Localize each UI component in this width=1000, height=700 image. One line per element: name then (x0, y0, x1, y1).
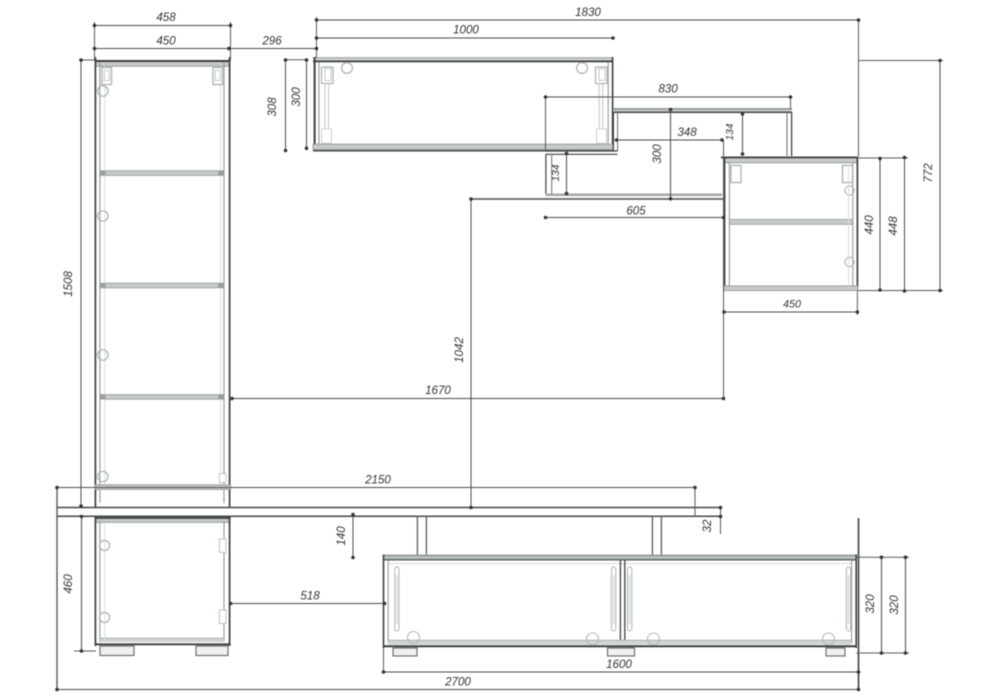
svg-text:518: 518 (300, 590, 320, 603)
svg-text:1670: 1670 (425, 384, 451, 397)
dimension 450 right (722, 299, 859, 314)
svg-text:1042: 1042 (453, 337, 466, 363)
svg-text:2700: 2700 (444, 676, 471, 689)
tall left display cabinet (95, 57, 231, 508)
dimension 1830 (315, 6, 861, 22)
extension 605 right / 1670 (723, 140, 725, 399)
svg-text:605: 605 (626, 205, 646, 218)
dimension 440 (863, 157, 882, 292)
extension 2150 right (694, 488, 696, 518)
svg-text:830: 830 (658, 83, 678, 96)
dimension 1000 (315, 24, 615, 40)
svg-text:772: 772 (922, 163, 935, 183)
dimension 605 (544, 205, 726, 220)
svg-text:460: 460 (62, 574, 75, 594)
right extension line bottom (858, 518, 860, 690)
dimension 32 (701, 506, 722, 533)
extension 296/458 (230, 22, 232, 60)
dimension 300 left (290, 58, 308, 150)
svg-text:300: 300 (290, 87, 303, 107)
extension 440/448/772 bottom tick (859, 290, 944, 292)
middle bottom shelf line (546, 194, 723, 197)
lower left cabinet 460 (95, 517, 231, 646)
shelf board 830 (613, 109, 792, 113)
extension 1600 left (383, 648, 385, 672)
dimension 296 (227, 35, 318, 51)
svg-text:440: 440 (863, 215, 876, 235)
left support post (417, 516, 426, 554)
svg-text:32: 32 (701, 519, 714, 532)
back panel line (471, 198, 724, 200)
dimension 2150 (55, 474, 697, 490)
svg-text:308: 308 (266, 97, 279, 117)
shelf left side panel (613, 113, 617, 152)
extension 32 (720, 508, 722, 535)
svg-text:134: 134 (551, 164, 562, 181)
extension 772 top tick (859, 60, 944, 62)
extension 830 left (545, 97, 547, 151)
svg-text:1830: 1830 (575, 6, 601, 19)
dimension 1042 (453, 197, 473, 509)
dimension 134 left (551, 152, 568, 196)
dimension 348 (615, 126, 724, 142)
svg-text:2150: 2150 (364, 474, 391, 487)
extension 320 top tick (856, 556, 909, 558)
svg-text:450: 450 (783, 299, 801, 311)
dimension 518 (229, 590, 387, 606)
svg-text:134: 134 (725, 123, 736, 140)
dimension 1600 (382, 658, 861, 674)
dimension 300 middle (651, 108, 672, 201)
dimension 134 right (725, 112, 744, 156)
extension 830 right (790, 97, 792, 109)
dimension 830 (544, 83, 793, 99)
extension 450 right cab (856, 291, 858, 316)
svg-text:320: 320 (888, 595, 901, 615)
dimension 772 (922, 59, 942, 293)
TV stand 1600x320 (383, 555, 857, 649)
svg-text:458: 458 (156, 11, 176, 24)
hanging side panel (546, 154, 552, 193)
extension 458 left (94, 22, 96, 60)
door lift fittings (395, 567, 851, 645)
svg-text:348: 348 (677, 126, 697, 139)
extension 460 bottom tick (74, 650, 96, 652)
right support post (652, 516, 661, 554)
dimension 448 (887, 156, 906, 293)
dimension 140 (335, 513, 355, 560)
extension 440/448 top tick (859, 157, 909, 159)
svg-text:1000: 1000 (453, 24, 479, 37)
lower connecting board (546, 151, 618, 154)
dimension 1508 (62, 58, 83, 508)
dimension 1670 (230, 384, 725, 400)
cabinet feet (100, 646, 228, 656)
svg-text:448: 448 (887, 216, 900, 236)
right wall cabinet 450x440 (721, 157, 858, 291)
shelf right side panel (787, 113, 792, 157)
svg-text:300: 300 (651, 144, 664, 164)
dimension 450 top (93, 35, 231, 51)
dimension 320 b (888, 556, 907, 655)
extension 308/300 tick (286, 59, 307, 61)
dimension 460 (62, 515, 83, 653)
svg-text:450: 450 (156, 35, 176, 48)
dimension 320 a (864, 556, 883, 655)
long TV shelf board (57, 508, 721, 517)
top wall cabinet 1000 (313, 57, 613, 151)
svg-text:296: 296 (261, 35, 282, 48)
extension 1508 top tick (81, 59, 95, 61)
svg-text:1600: 1600 (606, 658, 632, 671)
extension 320 bottom tick (856, 652, 909, 654)
stand feet (393, 648, 845, 656)
dimension 2700 (55, 676, 860, 692)
dimension 458 (93, 11, 233, 27)
extension 1830/1000 left (316, 17, 318, 58)
dimension 308 (266, 58, 287, 152)
right extension line top (858, 20, 860, 157)
svg-text:1508: 1508 (62, 271, 75, 297)
left wall line (56, 488, 58, 690)
svg-text:140: 140 (335, 526, 348, 546)
svg-text:320: 320 (864, 594, 877, 614)
